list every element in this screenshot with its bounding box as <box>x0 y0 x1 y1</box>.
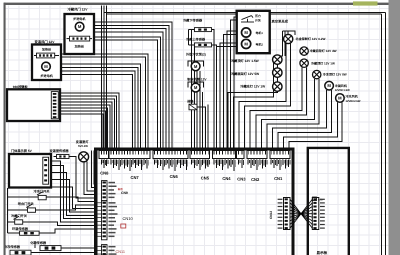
svg-text:CN3: CN3 <box>237 177 246 182</box>
main control board outline <box>96 149 293 255</box>
svg-text:冷藏下传感器: 冷藏下传感器 <box>183 18 203 22</box>
svg-text:阀路: 阀路 <box>187 100 194 104</box>
svg-text:压力: 压力 <box>255 14 261 18</box>
connectors CN1-CN8 on board top edge <box>99 150 290 182</box>
svg-text:显示板: 显示板 <box>317 250 328 255</box>
svg-text:冷冻传感器: 冷冻传感器 <box>4 245 21 249</box>
svg-text:M: M <box>338 96 342 101</box>
svg-text:CN7: CN7 <box>131 175 140 180</box>
svg-text:外取冷饮泵(2): 外取冷饮泵(2) <box>185 53 206 57</box>
svg-text:CN8: CN8 <box>100 171 109 176</box>
svg-text:M: M <box>78 24 82 29</box>
svg-text:M: M <box>244 30 248 35</box>
svg-text:冷藏门开关: 冷藏门开关 <box>11 214 28 218</box>
svg-text:冷藏顶灯 12V 1.5W: 冷藏顶灯 12V 1.5W <box>231 59 259 63</box>
svg-text:CN9: CN9 <box>121 191 128 195</box>
svg-text:电机1: 电机1 <box>256 31 264 35</box>
damper unit FD2 (variable temperature air damper) <box>32 45 61 81</box>
wire bundle: right-side loads staircase to CN1/CN2 <box>228 44 342 149</box>
svg-text:电机2: 电机2 <box>256 42 264 46</box>
svg-text:加热丝: 加热丝 <box>41 48 51 52</box>
svg-text:冷冻顶灯 12V 8W: 冷冻顶灯 12V 8W <box>323 73 347 77</box>
wire: lamp L1 staple <box>288 31 295 35</box>
svg-text:开关: 开关 <box>255 18 261 22</box>
svg-text:冷藏顶灯 12V 1W: 冷藏顶灯 12V 1W <box>311 61 335 65</box>
svg-text:CN5: CN5 <box>201 175 210 180</box>
svg-text:M: M <box>244 41 248 46</box>
svg-text:真空泵总成: 真空泵总成 <box>272 19 289 23</box>
svg-text:CN1: CN1 <box>274 176 283 181</box>
motor: freezer fan <box>336 94 345 103</box>
svg-text:加热丝: 加热丝 <box>74 45 84 49</box>
wire bundle: refrigerator damper to CN6 <box>94 22 172 148</box>
ribbon link CN12/CN13 between boards <box>269 198 325 230</box>
wire bundle: door switches and bottom sensors <box>7 188 97 252</box>
motor: condenser fan <box>325 81 334 90</box>
wire bundle: vacuum pump to CN4 <box>217 17 237 148</box>
lamp stack L5/L6/L7 <box>273 55 282 64</box>
svg-text:冷冻风机: 冷冻风机 <box>346 95 359 99</box>
svg-text:CN4: CN4 <box>222 176 231 181</box>
wire bundle: display/sensor/lamp drops to CN9..CN11 <box>51 151 97 223</box>
svg-text:步进电机: 步进电机 <box>40 74 53 78</box>
svg-text:CN10: CN10 <box>123 216 134 221</box>
svg-text:北金保鲜灯 12V 0.2W: 北金保鲜灯 12V 0.2W <box>296 37 326 41</box>
svg-text:环温传感器: 环温传感器 <box>12 227 29 231</box>
svg-text:CN6: CN6 <box>170 174 179 179</box>
svg-text:冷藏风门 12V: 冷藏风门 12V <box>68 8 89 12</box>
lamp L4 冷冻顶灯 <box>313 70 321 78</box>
svg-text:12VDC2.5W: 12VDC2.5W <box>346 100 361 103</box>
display/drive board (right) <box>308 148 349 255</box>
svg-text:冷藏后背灯 12V 4W: 冷藏后背灯 12V 4W <box>310 49 337 53</box>
svg-text:门体显示屏 5V: 门体显示屏 5V <box>11 149 33 153</box>
lamp L3 冷藏顶灯 <box>300 59 308 67</box>
svg-text:吧台门开关: 吧台门开关 <box>18 202 35 206</box>
svg-text:制冰机泵 12V: 制冰机泵 12V <box>187 77 207 81</box>
key panel box with connector <box>7 89 60 121</box>
door display panel box <box>9 154 51 188</box>
svg-text:冷藏上传感器: 冷藏上传感器 <box>186 37 206 41</box>
connector CN10 <box>96 201 134 240</box>
connector CN9 <box>102 181 128 201</box>
wire bundle: sensor/motor column to CN5 <box>188 30 217 149</box>
wire bundle: variable-temp damper to CN7 <box>61 54 148 148</box>
svg-text:冷藏层架灯 12V 5W: 冷藏层架灯 12V 5W <box>231 72 259 76</box>
vacuum pump assembly box <box>237 11 270 53</box>
svg-text:冷藏底灯 12V 1W: 冷藏底灯 12V 1W <box>240 84 265 88</box>
lamp L1 保鲜灯 <box>284 34 293 43</box>
svg-text:化霜传感器: 化霜传感器 <box>30 241 47 245</box>
svg-text:变温室传感器: 变温室传感器 <box>50 149 70 153</box>
svg-text:LED: LED <box>318 198 323 201</box>
svg-text:M: M <box>194 85 198 90</box>
svg-text:M: M <box>194 64 198 69</box>
svg-text:冷凝风机: 冷凝风机 <box>335 84 348 88</box>
svg-text:变温风门 12V: 变温风门 12V <box>35 40 56 44</box>
connector CN11 <box>96 245 125 255</box>
svg-text:M: M <box>44 64 48 69</box>
svg-text:CN12: CN12 <box>269 211 273 219</box>
wire: lamp stack chain <box>277 31 288 91</box>
svg-text:CN11: CN11 <box>116 250 125 254</box>
svg-text:CN2: CN2 <box>251 177 260 182</box>
svg-text:5V0.2W: 5V0.2W <box>78 144 88 148</box>
svg-text:12VDC1.5W: 12VDC1.5W <box>335 89 350 92</box>
svg-text:步进电机: 步进电机 <box>73 17 86 21</box>
damper unit FD1 (refrigerating air damper) <box>65 14 95 54</box>
lamp L2 冷藏后背灯 <box>300 47 308 55</box>
svg-text:M: M <box>327 83 331 88</box>
wire bundle: key panel to CN7 <box>59 93 119 148</box>
